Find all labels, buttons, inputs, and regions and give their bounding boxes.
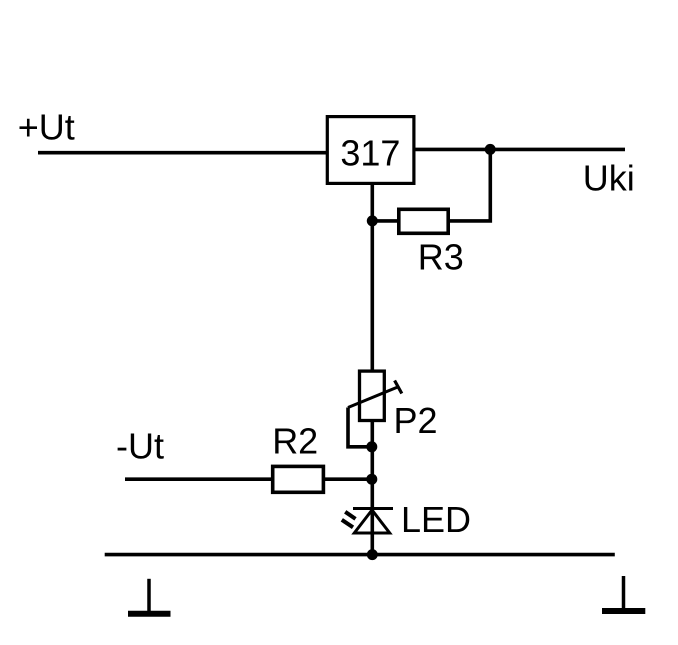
ground symbol right [602, 576, 645, 611]
svg-text:R3: R3 [418, 237, 464, 278]
wire -Ut input [125, 477, 274, 481]
svg-text:P2: P2 [394, 400, 438, 441]
regulator U1 317 [327, 117, 414, 184]
svg-text:-Ut: -Ut [116, 425, 164, 466]
svg-text:Uki: Uki [583, 157, 635, 198]
svg-text:317: 317 [340, 133, 400, 174]
node output junction [485, 144, 496, 155]
resistor R2 [273, 466, 324, 492]
wire feedback from output node to R3 [449, 149, 490, 221]
wire adj vertical [370, 184, 374, 371]
node adj junction [367, 215, 378, 226]
svg-text:LED: LED [401, 499, 471, 540]
node rail junction [367, 549, 378, 560]
resistor R3 [399, 209, 448, 233]
node wiper junction [366, 441, 377, 452]
wire +Ut input [38, 151, 328, 155]
wire R3 to adj node [372, 219, 399, 223]
ground symbol left [128, 579, 171, 614]
svg-text:R2: R2 [272, 421, 318, 462]
node R2 junction [366, 474, 377, 485]
LED D1 [342, 509, 393, 534]
wire R2 to node [324, 477, 372, 481]
wire ground rail [105, 553, 615, 557]
wire P2 bottom to rail [370, 421, 374, 555]
wire wiper to bottom terminal [348, 408, 372, 447]
svg-text:+Ut: +Ut [18, 106, 75, 147]
wire output [414, 148, 625, 152]
potentiometer P2 [348, 371, 402, 420]
